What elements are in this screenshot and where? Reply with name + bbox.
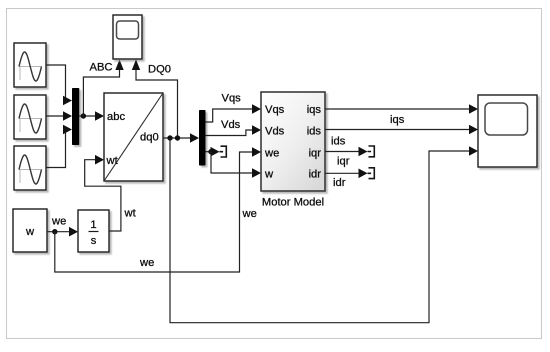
svg-text:idr: idr: [309, 169, 322, 181]
svg-text:idr: idr: [333, 177, 346, 189]
wire dq0 feedback to scope input3: [170, 138, 478, 323]
sine source 1: [14, 43, 46, 87]
svg-text:Motor Model: Motor Model: [262, 197, 324, 209]
svg-text:iqr: iqr: [309, 148, 322, 160]
wire dq0 output to demux: [163, 133, 199, 143]
wire sine3 to mux: [46, 125, 72, 168]
wire idr to terminator: [325, 169, 368, 179]
wire iqr to terminator: [325, 147, 368, 157]
demux D1: [199, 110, 206, 166]
terminator T2: [368, 146, 375, 157]
integrator block 1/s: [78, 210, 109, 252]
wire ABC branch to scope: [83, 60, 123, 117]
wire w to integrator: [47, 227, 78, 237]
svg-text:iqs: iqs: [390, 114, 405, 126]
constant block w: [13, 209, 47, 252]
sine source 3: [14, 146, 46, 190]
svg-text:dq0: dq0: [140, 132, 159, 144]
wire ids to scope: [325, 125, 478, 135]
svg-text:we: we: [264, 148, 279, 160]
svg-text:iqs: iqs: [307, 104, 322, 116]
svg-text:w: w: [264, 169, 274, 181]
wire mux to abc input: [79, 111, 104, 121]
svg-text:w: w: [25, 226, 35, 238]
svg-text:we: we: [51, 216, 66, 228]
mux M1: [72, 88, 79, 145]
motor model subsystem: [261, 92, 325, 191]
svg-text:ids: ids: [307, 126, 322, 138]
svg-text:ABC: ABC: [90, 62, 113, 74]
svg-text:we: we: [139, 257, 154, 269]
svg-text:1: 1: [90, 219, 96, 231]
wire Vqs demux to motor: [206, 104, 262, 122]
wire integrator to wt input: [85, 155, 121, 231]
wire Vds demux to motor: [206, 125, 262, 135]
terminator T3: [368, 168, 375, 179]
wire sine2 to mux: [46, 111, 72, 121]
wire DQ0 branch to scope: [132, 60, 178, 139]
svg-text:abc: abc: [107, 111, 125, 123]
abc to dq0 transform block U1: [104, 93, 163, 181]
svg-text:s: s: [91, 235, 97, 247]
svg-text:iqr: iqr: [337, 156, 350, 168]
wire demux third output: [206, 147, 220, 157]
svg-text:Vds: Vds: [265, 126, 285, 138]
svg-text:DQ0: DQ0: [148, 64, 171, 76]
svg-text:Vqs: Vqs: [222, 93, 242, 105]
svg-text:we: we: [242, 208, 257, 220]
wire zero branch to w input: [211, 152, 261, 178]
wire iqs to scope: [325, 104, 478, 114]
svg-text:wt: wt: [124, 208, 137, 220]
wire we feedback to motor: [55, 147, 261, 272]
svg-text:Vqs: Vqs: [265, 104, 285, 116]
svg-text:wt: wt: [106, 155, 119, 167]
scope Scope1: [113, 15, 142, 59]
svg-text:ids: ids: [331, 136, 346, 148]
sine source 2: [14, 95, 46, 139]
wire sine1 to mux: [46, 65, 72, 105]
terminator T1: [220, 146, 227, 157]
scope Scope2: [478, 95, 537, 167]
svg-text:Vds: Vds: [221, 119, 241, 131]
